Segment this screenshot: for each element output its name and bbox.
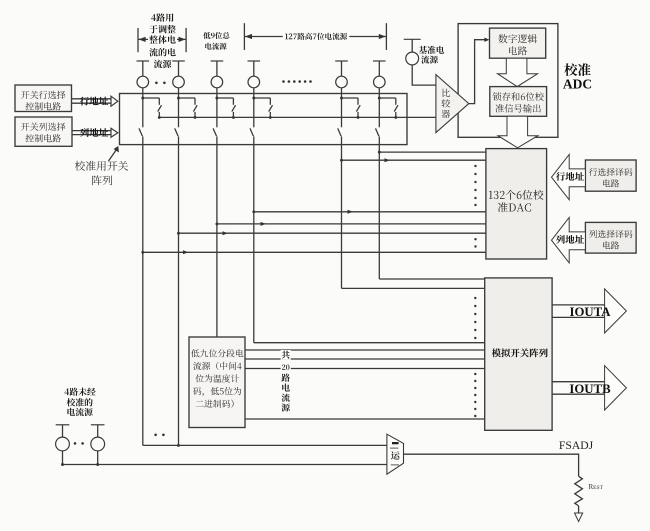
dimension bracket for 127 MSB current sources: [244, 23, 386, 50]
low 9-bit segmented current source box: [189, 337, 245, 428]
fat arrow digital logic to latch: [498, 58, 538, 86]
ellipsis dots between I1 and I2: [155, 82, 166, 85]
row address hollow arrow to cal DAC: [552, 155, 586, 200]
ellipsis dots cal DAC inputs lower: [474, 238, 476, 248]
wire op-amp output to FSADJ node: [404, 454, 579, 476]
col address hollow arrow: [72, 128, 118, 137]
wire comparator output to digital logic: [469, 40, 488, 104]
132 6-bit calibration DAC box: [486, 149, 547, 259]
junction dot column2 on 445 wire: [177, 444, 180, 447]
ellipsis dots analog switch inputs lower: [474, 373, 476, 417]
comparator U1: [436, 75, 469, 133]
label: 127路高7位电流源: [283, 33, 350, 41]
switch row select control box: [15, 85, 72, 112]
column 1 drop wire and tap to cal DAC at y=252.3: [141, 145, 486, 446]
IOUTB output arrow: [552, 366, 626, 410]
analog switch array box: [485, 278, 552, 430]
label: 行地址 (row address wire): [80, 97, 108, 106]
wire resistor to ground: [578, 506, 580, 513]
label: 4路用于调整整体电流的电流源: [148, 13, 177, 68]
wire uncal sources bus to op-amp lower input: [61, 463, 387, 466]
segment box output wires (3) to analog switch array: [245, 350, 486, 369]
digital logic box: [490, 28, 546, 58]
col address hollow arrow to cal DAC: [552, 218, 586, 263]
uncalibrated current source IU1: [56, 425, 70, 465]
calibration switch cell for column 1: [139, 94, 162, 145]
label: 4路未经校准的电流源: [65, 388, 96, 417]
svg-text:ADC: ADC: [563, 76, 592, 91]
column 4 drop wire and tap to cal DAC at y=211.8: [252, 145, 486, 343]
current source I3 (supply bar, stem, circle): [211, 61, 224, 94]
ellipsis dots cal DAC inputs upper: [474, 165, 476, 206]
label: 列地址 (col address wire): [80, 128, 108, 137]
calibration switch cell for column 3: [213, 94, 236, 145]
wire trim sources to op-amp upper input: [143, 444, 387, 446]
uncalibrated current source IU2: [91, 425, 105, 465]
column 5 drop wire and tap to cal DAC at y=160.2: [340, 145, 486, 289]
svg-text:REST: REST: [589, 483, 604, 491]
op-amp U2 (FSADJ amplifier): [387, 434, 404, 474]
column 3 drop wire and tap to cal DAC at y=223.9: [215, 145, 485, 337]
label: 校准 ADC: [563, 63, 592, 91]
label: 基准电流源: [419, 46, 444, 64]
row select decode box: [585, 160, 636, 191]
svg-text:FSADJ: FSADJ: [559, 439, 594, 452]
IOUTA output arrow: [552, 289, 626, 333]
row address hollow arrow: [72, 96, 118, 106]
column 6 wire to analog switch array: [379, 278, 485, 280]
reference current source IREF: [404, 39, 421, 65]
calibration switch cell for column 2: [175, 94, 198, 145]
switch col select control box: [15, 117, 72, 146]
current source I4 (supply bar, stem, circle): [248, 61, 261, 94]
ground symbol: [575, 513, 583, 522]
ellipsis dots between I4 and I5 (127 sources): [282, 80, 312, 83]
column 6 drop wire and tap to cal DAC at y=152.1: [378, 145, 486, 279]
wire column 3 into segment box (enters top): [0, 0, 1, 1]
fat arrow latch to calibration DACs: [498, 116, 538, 148]
resistor REST: [575, 476, 583, 506]
column 5 wire to analog switch array: [342, 287, 486, 289]
label: 列地址 (col decode): [556, 235, 584, 244]
calibration ADC outer box: [458, 24, 558, 138]
calibration switch array box: [120, 94, 408, 145]
label: 低9位总电流源: [203, 32, 229, 50]
column 4 wire to analog switch array: [254, 342, 486, 344]
ellipsis dots analog switch inputs upper: [474, 297, 476, 339]
wire IREF to comparator +input: [412, 65, 436, 85]
dimension bracket for 4 trim current sources: [138, 28, 186, 52]
segment box bottom output wire to analog switch array: [245, 418, 486, 420]
svg-text:IOUTB: IOUTB: [569, 382, 611, 396]
label: 行地址 (row decode): [556, 172, 584, 181]
label: 校准用开关阵列 with pointer arrow: [75, 146, 128, 185]
current source I5 (supply bar, stem, circle): [335, 61, 348, 94]
current source I2 (supply bar, stem, circle): [172, 61, 185, 94]
calibration bus wire to comparator: [159, 116, 436, 118]
column 2 drop wire and tap to cal DAC at y=233.2: [177, 145, 486, 446]
ellipsis dots between uncal sources: [74, 442, 84, 445]
current source I6 (supply bar, stem, circle): [373, 61, 386, 94]
calibration switch cell for column 6: [376, 94, 399, 145]
calibration switch cell for column 5: [338, 94, 361, 145]
latch box 锁存和6位校准信号输出: [490, 87, 547, 117]
col select decode box: [585, 222, 636, 253]
current source I1 (supply bar, stem, circle): [137, 61, 150, 94]
calibration switch cell for column 4: [250, 94, 273, 145]
svg-text:IOUTA: IOUTA: [569, 305, 611, 319]
ellipsis dots between col1 col2 bottom: [154, 434, 164, 437]
label: 共20路电流源 (vertical): [281, 350, 291, 413]
